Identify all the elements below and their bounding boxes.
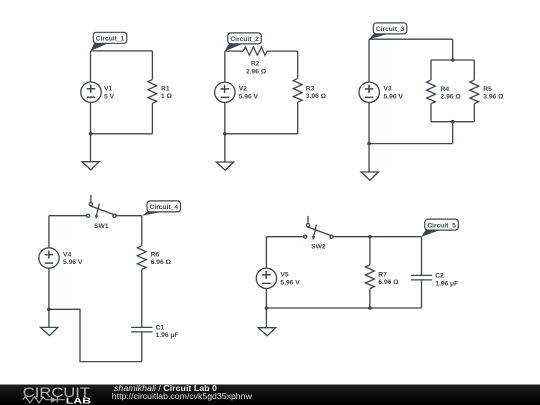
svg-text:R7: R7: [378, 271, 387, 278]
V2 value label: [239, 86, 259, 101]
junction node parallel bottom: [451, 120, 455, 124]
wire R1 bottom: [151, 103, 153, 134]
wire C2 bottom: [421, 280, 423, 308]
callout label Circuit_4: [142, 201, 181, 216]
wire gnd stub Circuit_1: [90, 134, 92, 162]
V3 value label: [384, 86, 404, 101]
svg-text:C2: C2: [435, 273, 444, 280]
wire R3 top: [297, 51, 299, 78]
wire gnd stub Circuit_3: [368, 144, 370, 172]
wire R7 top stub: [369, 237, 371, 265]
callout label Circuit_1: [91, 32, 127, 51]
callout label Circuit_2: [225, 33, 261, 51]
callout label Circuit_5: [422, 219, 459, 237]
junction node R7 top: [368, 235, 372, 239]
resistor R6: [137, 246, 146, 270]
svg-text:R3: R3: [306, 86, 315, 93]
junction node Circuit_1 gnd: [89, 132, 93, 136]
resistor R2: [243, 47, 267, 55]
voltage source V4: [39, 248, 59, 268]
footer title text: [114, 384, 218, 393]
C1 value label: [156, 324, 179, 339]
wire R7 to C2 top: [370, 236, 422, 238]
wire V2 top: [224, 51, 226, 82]
voltage source V3: [359, 82, 379, 102]
voltage source V2: [215, 82, 235, 102]
resistor R4: [427, 80, 436, 104]
capacitor C1: [131, 327, 152, 332]
R4 value label: [441, 86, 462, 101]
capacitor C2: [411, 275, 432, 280]
junction node Circuit_3 gnd: [367, 142, 371, 146]
svg-text:3.96 Ω: 3.96 Ω: [483, 94, 504, 101]
wire R7 bottom: [369, 289, 371, 308]
wire V1 bottom: [90, 102, 92, 133]
svg-text:Circuit_3: Circuit_3: [376, 26, 405, 33]
SW1 label: [94, 223, 109, 230]
wire V1 top: [90, 51, 92, 82]
wire R1 top: [151, 51, 153, 80]
wire Circuit_1 top: [91, 50, 153, 52]
svg-text:SW2: SW2: [311, 243, 326, 250]
resistor R1: [148, 80, 157, 104]
svg-text:1.96 μF: 1.96 μF: [156, 332, 179, 339]
wire V2 bottom: [224, 102, 226, 133]
wire V5 bottom: [265, 289, 267, 309]
svg-text:V1: V1: [104, 86, 112, 93]
wire R5 top: [473, 60, 475, 80]
voltage source V1: [81, 82, 101, 102]
svg-text:5.96 V: 5.96 V: [384, 94, 404, 101]
svg-text:3.96 Ω: 3.96 Ω: [306, 93, 327, 100]
svg-text:V4: V4: [63, 251, 71, 258]
svg-text:V3: V3: [384, 86, 392, 93]
V5 value label: [280, 272, 300, 287]
svg-text:R1: R1: [161, 85, 170, 92]
wire R4 top: [430, 60, 432, 80]
svg-text:R5: R5: [483, 86, 492, 93]
svg-text:6.96 Ω: 6.96 Ω: [378, 279, 399, 286]
ground GND2: [216, 162, 233, 170]
wire Circuit_5 bottom: [266, 307, 421, 309]
switch SW2 (SPDT): [304, 216, 334, 240]
wire R3 bottom: [297, 102, 299, 134]
CircuitLab logo LAB text: [66, 397, 91, 405]
ground GND5: [258, 328, 275, 336]
svg-text:5.96 V: 5.96 V: [280, 280, 300, 287]
wire parallel top bar: [431, 59, 474, 61]
wire SW1 to R6: [116, 215, 142, 217]
resistor R7: [366, 265, 375, 289]
svg-text:2.96 Ω: 2.96 Ω: [441, 94, 462, 101]
R5 value label: [483, 86, 504, 101]
ground GND4: [41, 327, 58, 335]
footer bar: [0, 385, 540, 405]
wire C1 bottom: [141, 332, 143, 362]
svg-text:Circuit_5: Circuit_5: [427, 222, 456, 229]
svg-text:2.96 Ω: 2.96 Ω: [246, 68, 267, 75]
svg-text:Circuit_1: Circuit_1: [96, 36, 125, 43]
resistor R3: [293, 78, 302, 102]
svg-text:V2: V2: [239, 86, 247, 93]
wire parallel bottom bar: [431, 121, 474, 123]
wire R6 top: [141, 216, 143, 246]
R6 value label: [151, 251, 172, 266]
wire V3 bottom: [368, 102, 370, 143]
junction node Circuit_4 gnd: [47, 308, 51, 312]
svg-text:LAB: LAB: [66, 397, 91, 405]
wire Circuit_2 top-left: [225, 50, 243, 52]
svg-text:5.96 V: 5.96 V: [63, 259, 83, 266]
R7 value label: [378, 271, 399, 286]
callout label Circuit_3: [369, 23, 407, 39]
svg-text:1.96 μF: 1.96 μF: [435, 281, 458, 288]
svg-text:R6: R6: [151, 251, 160, 258]
wire Circuit_4 top-left: [49, 215, 87, 217]
svg-text:Circuit_2: Circuit_2: [230, 36, 259, 43]
svg-text:5 V: 5 V: [104, 93, 115, 100]
wire Circuit_2 top-right: [267, 50, 298, 52]
wire V5 top: [265, 237, 267, 268]
R3 value label: [306, 86, 327, 101]
R1 value label: [161, 85, 173, 100]
svg-text:1 Ω: 1 Ω: [161, 93, 173, 100]
svg-text:Circuit_4: Circuit_4: [150, 204, 179, 211]
R2 value label: [246, 61, 267, 76]
junction node parallel top: [451, 58, 455, 62]
svg-text:V5: V5: [280, 272, 288, 279]
switch SW1 (SPDT): [87, 195, 117, 219]
resistor R5: [470, 80, 479, 104]
junction node Circuit_5 gnd: [265, 306, 269, 310]
ground GND3: [361, 172, 378, 180]
svg-text:5.96 V: 5.96 V: [239, 94, 259, 101]
footer url text: [112, 392, 252, 401]
wire SW2 to R7: [333, 236, 370, 238]
CircuitLab logo resistor-diode glyph: [23, 397, 65, 403]
svg-text:R2: R2: [251, 61, 260, 68]
junction node Circuit_2 gnd: [223, 132, 227, 136]
CircuitLab logo wordmark: [23, 384, 91, 400]
svg-text:C1: C1: [156, 324, 165, 331]
wire parallel drop bottom: [452, 122, 454, 144]
wire Circuit_1 bottom: [91, 133, 153, 135]
wire R4 bottom: [430, 104, 432, 122]
wire gnd stub Circuit_5: [265, 308, 267, 328]
wire Circuit_2 bottom: [225, 133, 298, 135]
C2 value label: [435, 273, 458, 288]
ground GND1: [82, 162, 99, 170]
wire V4 bottom: [48, 268, 50, 309]
junction node R7 bottom: [368, 306, 372, 310]
V4 value label: [63, 251, 83, 266]
svg-text:SW1: SW1: [94, 223, 109, 230]
wire V3 top: [368, 39, 370, 82]
wire gnd stub Circuit_2: [224, 134, 226, 162]
svg-text:R4: R4: [441, 86, 450, 93]
wire Circuit_5 top-left: [266, 236, 303, 238]
wire R6 to C1: [141, 269, 143, 327]
wire Circuit_3 top: [369, 38, 453, 40]
wire gnd stub Circuit_4: [48, 309, 50, 327]
svg-text:http://circuitlab.com/cvk5gd35: http://circuitlab.com/cvk5gd35xphnw: [112, 392, 252, 401]
wire R5 bottom: [473, 104, 475, 122]
wire parallel drop top: [452, 39, 454, 60]
V1 value label: [104, 86, 115, 101]
voltage source V5: [256, 268, 276, 288]
SW2 label: [311, 243, 326, 250]
wire Circuit_3 bottom: [369, 143, 453, 145]
wire Circuit_4 bottom return: [49, 309, 142, 361]
wire C2 top: [421, 237, 423, 276]
wire V4 top: [48, 216, 50, 248]
svg-text:6.96 Ω: 6.96 Ω: [151, 259, 172, 266]
